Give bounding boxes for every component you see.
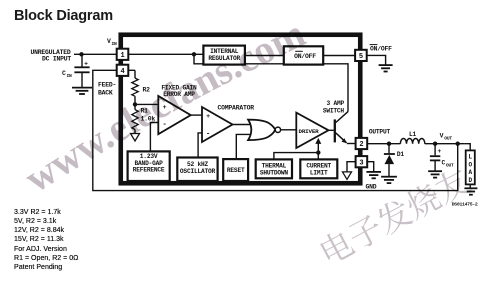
svg-text:OSCILLATOR: OSCILLATOR: [180, 168, 216, 175]
svg-text:IN: IN: [112, 41, 118, 47]
svg-text:SWITCH: SWITCH: [323, 107, 345, 114]
svg-text:D1: D1: [397, 151, 405, 158]
svg-text:+: +: [206, 113, 210, 120]
svg-text:+: +: [84, 61, 88, 68]
svg-text:COMPARATOR: COMPARATOR: [218, 104, 255, 111]
svg-text:V: V: [107, 38, 111, 45]
svg-text:SHUTDOWN: SHUTDOWN: [260, 169, 289, 176]
svg-text:LIMIT: LIMIT: [310, 169, 328, 176]
svg-text:DRIVER: DRIVER: [298, 128, 319, 135]
svg-text:DS011475-2: DS011475-2: [452, 202, 478, 208]
svg-text:+: +: [438, 148, 442, 155]
svg-text:THERMAL: THERMAL: [262, 162, 287, 169]
svg-text:L1: L1: [409, 131, 417, 138]
svg-text:L: L: [468, 154, 472, 161]
svg-text:OUT: OUT: [446, 162, 454, 168]
svg-text:1: 1: [120, 52, 124, 60]
svg-text:D: D: [468, 177, 472, 184]
svg-text:V: V: [440, 132, 444, 139]
svg-text:BACK: BACK: [98, 90, 113, 97]
svg-text:3: 3: [359, 159, 363, 167]
svg-text:5: 5: [359, 53, 363, 61]
svg-text:3 AMP: 3 AMP: [327, 100, 345, 107]
svg-text:IN: IN: [67, 73, 73, 79]
svg-text:FEED-: FEED-: [98, 82, 116, 89]
svg-text:-: -: [206, 131, 210, 139]
svg-text:REFERENCE: REFERENCE: [133, 167, 165, 174]
svg-text:O: O: [468, 161, 472, 168]
svg-text:GND: GND: [366, 183, 377, 190]
svg-text:DC INPUT: DC INPUT: [42, 56, 71, 63]
svg-text:ON/OFF: ON/OFF: [370, 46, 392, 53]
svg-text:C: C: [62, 70, 66, 77]
svg-text:C: C: [442, 160, 446, 167]
svg-text:RESET: RESET: [227, 167, 245, 174]
svg-text:OUT: OUT: [444, 135, 452, 141]
svg-text:52 kHZ: 52 kHZ: [187, 161, 209, 168]
svg-text:A: A: [468, 169, 472, 176]
svg-text:2: 2: [359, 141, 363, 149]
svg-text:4: 4: [120, 68, 124, 76]
svg-text:CURRENT: CURRENT: [306, 162, 331, 169]
svg-text:OUTPUT: OUTPUT: [369, 129, 391, 136]
